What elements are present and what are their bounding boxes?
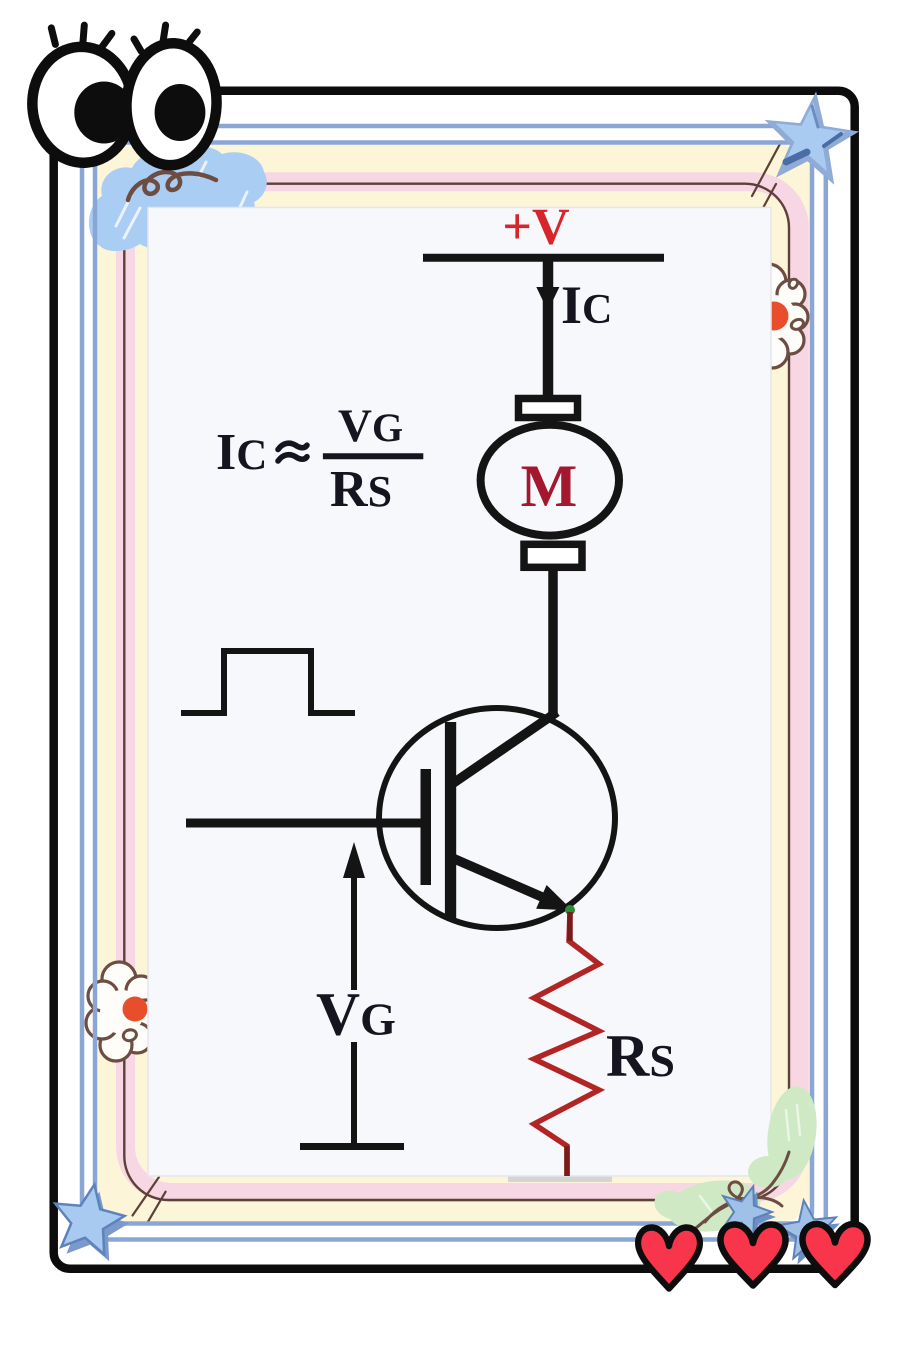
svg-text:RS: RS	[330, 461, 392, 518]
svg-text:VG: VG	[338, 400, 403, 452]
svg-text:IC: IC	[216, 424, 267, 481]
svg-text:+V: +V	[502, 199, 569, 256]
svg-text:M: M	[521, 453, 578, 519]
